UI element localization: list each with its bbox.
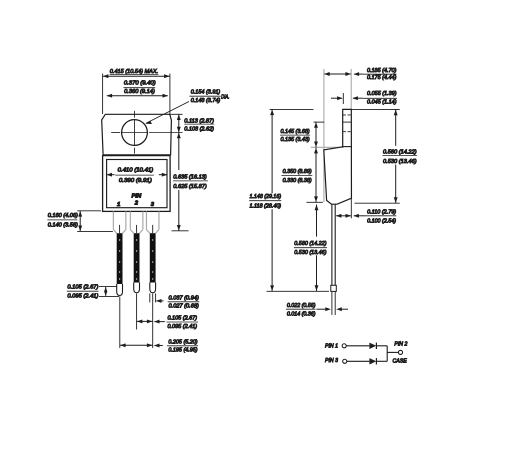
dimension tip 0.105 vertical (105, 287, 107, 296)
terminal PIN 2 (398, 350, 402, 354)
lead 3 center mark (152, 225, 154, 233)
dimension 0.560 right lower (395, 165, 397, 204)
dimension line 0.370 (107, 95, 168, 97)
pitch leader arrow (155, 321, 165, 323)
tab outline front view (102, 114, 172, 155)
lead 1 narrow section (117, 233, 123, 284)
gray extension front face (323, 69, 325, 202)
shoulder extension line right (172, 230, 189, 232)
svg-text:0.390 (9.91): 0.390 (9.91) (119, 178, 152, 184)
lead 2 narrow section (134, 233, 140, 282)
lead 1 wide section gray (112, 211, 114, 229)
lead 3 extension below tip (152, 294, 154, 348)
hole center extension (314, 121, 325, 123)
svg-text:PIN: PIN (132, 194, 143, 200)
gray extension back face (350, 69, 352, 109)
lead 3 narrow section (150, 233, 156, 282)
svg-text:1.118 (28.40): 1.118 (28.40) (250, 203, 282, 209)
svg-text:0.530 (13.46): 0.530 (13.46) (294, 250, 326, 256)
side lead right edge (334, 204, 336, 285)
svg-text:0.160 (4.06): 0.160 (4.06) (48, 213, 78, 219)
dimension 0.560 lead lower (316, 255, 318, 291)
extension top for 0.160 dim (77, 210, 101, 212)
0.022 arrow left (317, 308, 327, 310)
dimension 0.113 vertical (178, 114, 180, 132)
svg-text:0.113 (2.87): 0.113 (2.87) (184, 118, 214, 124)
lead 2 wide section gray (129, 211, 131, 229)
hole centerline horizontal with extension (111, 132, 120, 134)
lead 1 extension below tip (119, 296, 121, 348)
tab body junction line (343, 146, 352, 148)
side lead tip box (331, 285, 337, 291)
back face extension for 0.110 (350, 198, 352, 218)
svg-text:PIN 3: PIN 3 (325, 358, 339, 364)
dimension 1.148 vertical upper (271, 109, 273, 193)
svg-text:0.110 (2.79): 0.110 (2.79) (367, 210, 396, 216)
svg-text:0.154 (3.91): 0.154 (3.91) (191, 89, 221, 95)
svg-text:DIA.: DIA. (221, 95, 229, 101)
svg-text:0.135 (3.43): 0.135 (3.43) (281, 137, 310, 143)
dimension 0.350 vertical (315, 148, 317, 203)
lead 3 wide section gray (145, 211, 147, 229)
terminal PIN 3 (343, 359, 347, 363)
lead 3 width tick right (155, 293, 157, 302)
svg-text:CASE: CASE (393, 358, 407, 364)
side body outline (324, 109, 352, 204)
svg-text:0.360 (9.14): 0.360 (9.14) (124, 89, 155, 95)
svg-text:0.105 (2.67): 0.105 (2.67) (67, 285, 98, 291)
wire D2 to node (376, 360, 387, 362)
tick tab front face (342, 93, 344, 104)
wire pin1 to D1 (346, 345, 369, 347)
arrow right for 0.410 (159, 174, 167, 176)
0.350 extension bottom (306, 201, 322, 203)
diode D2 (369, 358, 376, 364)
dimension 0.560 right upper (395, 110, 397, 146)
svg-text:0.625 (15.87): 0.625 (15.87) (173, 184, 206, 190)
svg-text:0.350 (8.89): 0.350 (8.89) (283, 169, 312, 175)
svg-text:0.055 (1.39): 0.055 (1.39) (367, 91, 397, 97)
body inner rectangle (107, 160, 167, 208)
dimension 0.635 vertical upper (178, 133, 180, 171)
lead tick right below (334, 291, 336, 315)
svg-text:2: 2 (134, 201, 139, 207)
diode D1 (369, 343, 376, 349)
lead 3 width tick left (149, 293, 151, 302)
svg-text:0.530 (13.46): 0.530 (13.46) (383, 159, 417, 165)
svg-text:PIN 2: PIN 2 (394, 341, 408, 347)
dimension 0.110 arrows (336, 215, 351, 217)
hole hidden line lower (343, 131, 351, 133)
dimension 0.055 arrows (331, 97, 342, 99)
dimension 0.560 lead upper (316, 205, 318, 237)
svg-text:0.560 (14.22): 0.560 (14.22) (383, 149, 417, 155)
side lead left edge (331, 204, 333, 285)
svg-text:0.095 (2.41): 0.095 (2.41) (67, 293, 98, 299)
svg-text:0.175 (4.44): 0.175 (4.44) (367, 75, 397, 81)
hole hidden line upper (343, 114, 351, 116)
svg-text:0.195 (4.95): 0.195 (4.95) (168, 347, 197, 353)
svg-text:PIN 1: PIN 1 (325, 343, 338, 349)
arrow left for 0.410 (107, 174, 114, 176)
0.110 leader arrow (354, 215, 366, 217)
0.185 leader arrow (354, 73, 363, 75)
extension bottom for 0.160 dim (77, 230, 113, 232)
svg-text:0.185 (4.70): 0.185 (4.70) (367, 68, 397, 74)
svg-text:0.045 (1.14): 0.045 (1.14) (367, 100, 397, 106)
svg-text:0.370 (9.40): 0.370 (9.40) (124, 81, 156, 87)
mounting hole circle (122, 120, 148, 146)
dimension 1.148 vertical lower (271, 209, 273, 291)
wire node to pin2 (387, 351, 398, 353)
wire pin3 to D2 (347, 360, 370, 362)
lead tick left below (331, 291, 333, 315)
body outer rectangle (103, 156, 171, 212)
hole centerline vertical (134, 111, 136, 118)
top extension right for 0.560 (351, 108, 400, 110)
svg-text:0.560 (14.22): 0.560 (14.22) (294, 241, 326, 247)
dimension 0.205 (120, 344, 153, 346)
svg-text:0.105 (2.67): 0.105 (2.67) (167, 316, 197, 322)
svg-text:0.148 (3.74): 0.148 (3.74) (191, 98, 221, 104)
svg-text:0.140 (3.56): 0.140 (3.56) (48, 223, 78, 229)
svg-text:0.022 (0.56): 0.022 (0.56) (287, 303, 316, 309)
svg-text:0.410 (10.41): 0.410 (10.41) (118, 168, 154, 174)
svg-text:0.330 (8.38): 0.330 (8.38) (283, 178, 312, 184)
svg-text:0.145 (3.68): 0.145 (3.68) (281, 129, 310, 135)
svg-text:0.205 (5.20): 0.205 (5.20) (168, 339, 197, 345)
svg-text:0.037 (0.94): 0.037 (0.94) (169, 296, 199, 302)
svg-text:0.635 (16.13): 0.635 (16.13) (173, 175, 206, 181)
bottom extension lead tip level (267, 290, 330, 292)
dimension line 0.415 MAX (103, 75, 170, 77)
svg-text:0.103 (2.62): 0.103 (2.62) (184, 126, 214, 132)
svg-text:0.095 (2.41): 0.095 (2.41) (167, 324, 197, 330)
lead 1 center mark (119, 225, 121, 233)
extension bottom for tip 0.105 dim (99, 295, 119, 297)
body bottom extension right (355, 202, 400, 204)
extension line left of 0.415 dim (102, 74, 104, 114)
lead 2 extension below tip (136, 294, 138, 330)
0.022 arrow right (341, 308, 348, 310)
terminal PIN 1 (342, 344, 346, 348)
gray extension body top (311, 146, 344, 148)
tab top extension line (170, 113, 183, 115)
leader line to mounting hole (146, 102, 189, 124)
wire D1 to node (376, 345, 387, 347)
dimension 0.145 vertical (315, 122, 317, 147)
0.205 leader arrow (155, 345, 163, 347)
svg-text:1: 1 (117, 202, 120, 208)
svg-text:0.014 (0.36): 0.014 (0.36) (287, 312, 316, 318)
extension top for tip 0.105 dim (99, 285, 117, 287)
svg-text:0.027 (0.68): 0.027 (0.68) (169, 304, 199, 310)
dimension 0.037 arrow (156, 300, 163, 302)
dimension 0.185 (324, 73, 351, 75)
extension line right of 0.415 dim (169, 74, 171, 114)
dimension 0.635 vertical lower (178, 190, 180, 231)
lead 2 center mark (136, 225, 138, 233)
dimension pitch 0.105 (137, 320, 153, 322)
top extension for 1.148 (270, 108, 314, 110)
svg-text:1.148 (29.16): 1.148 (29.16) (250, 194, 282, 200)
svg-text:0.100 (2.54): 0.100 (2.54) (367, 218, 396, 224)
dimension 0.160 vertical (79, 211, 81, 231)
node vertical wire (386, 346, 388, 362)
